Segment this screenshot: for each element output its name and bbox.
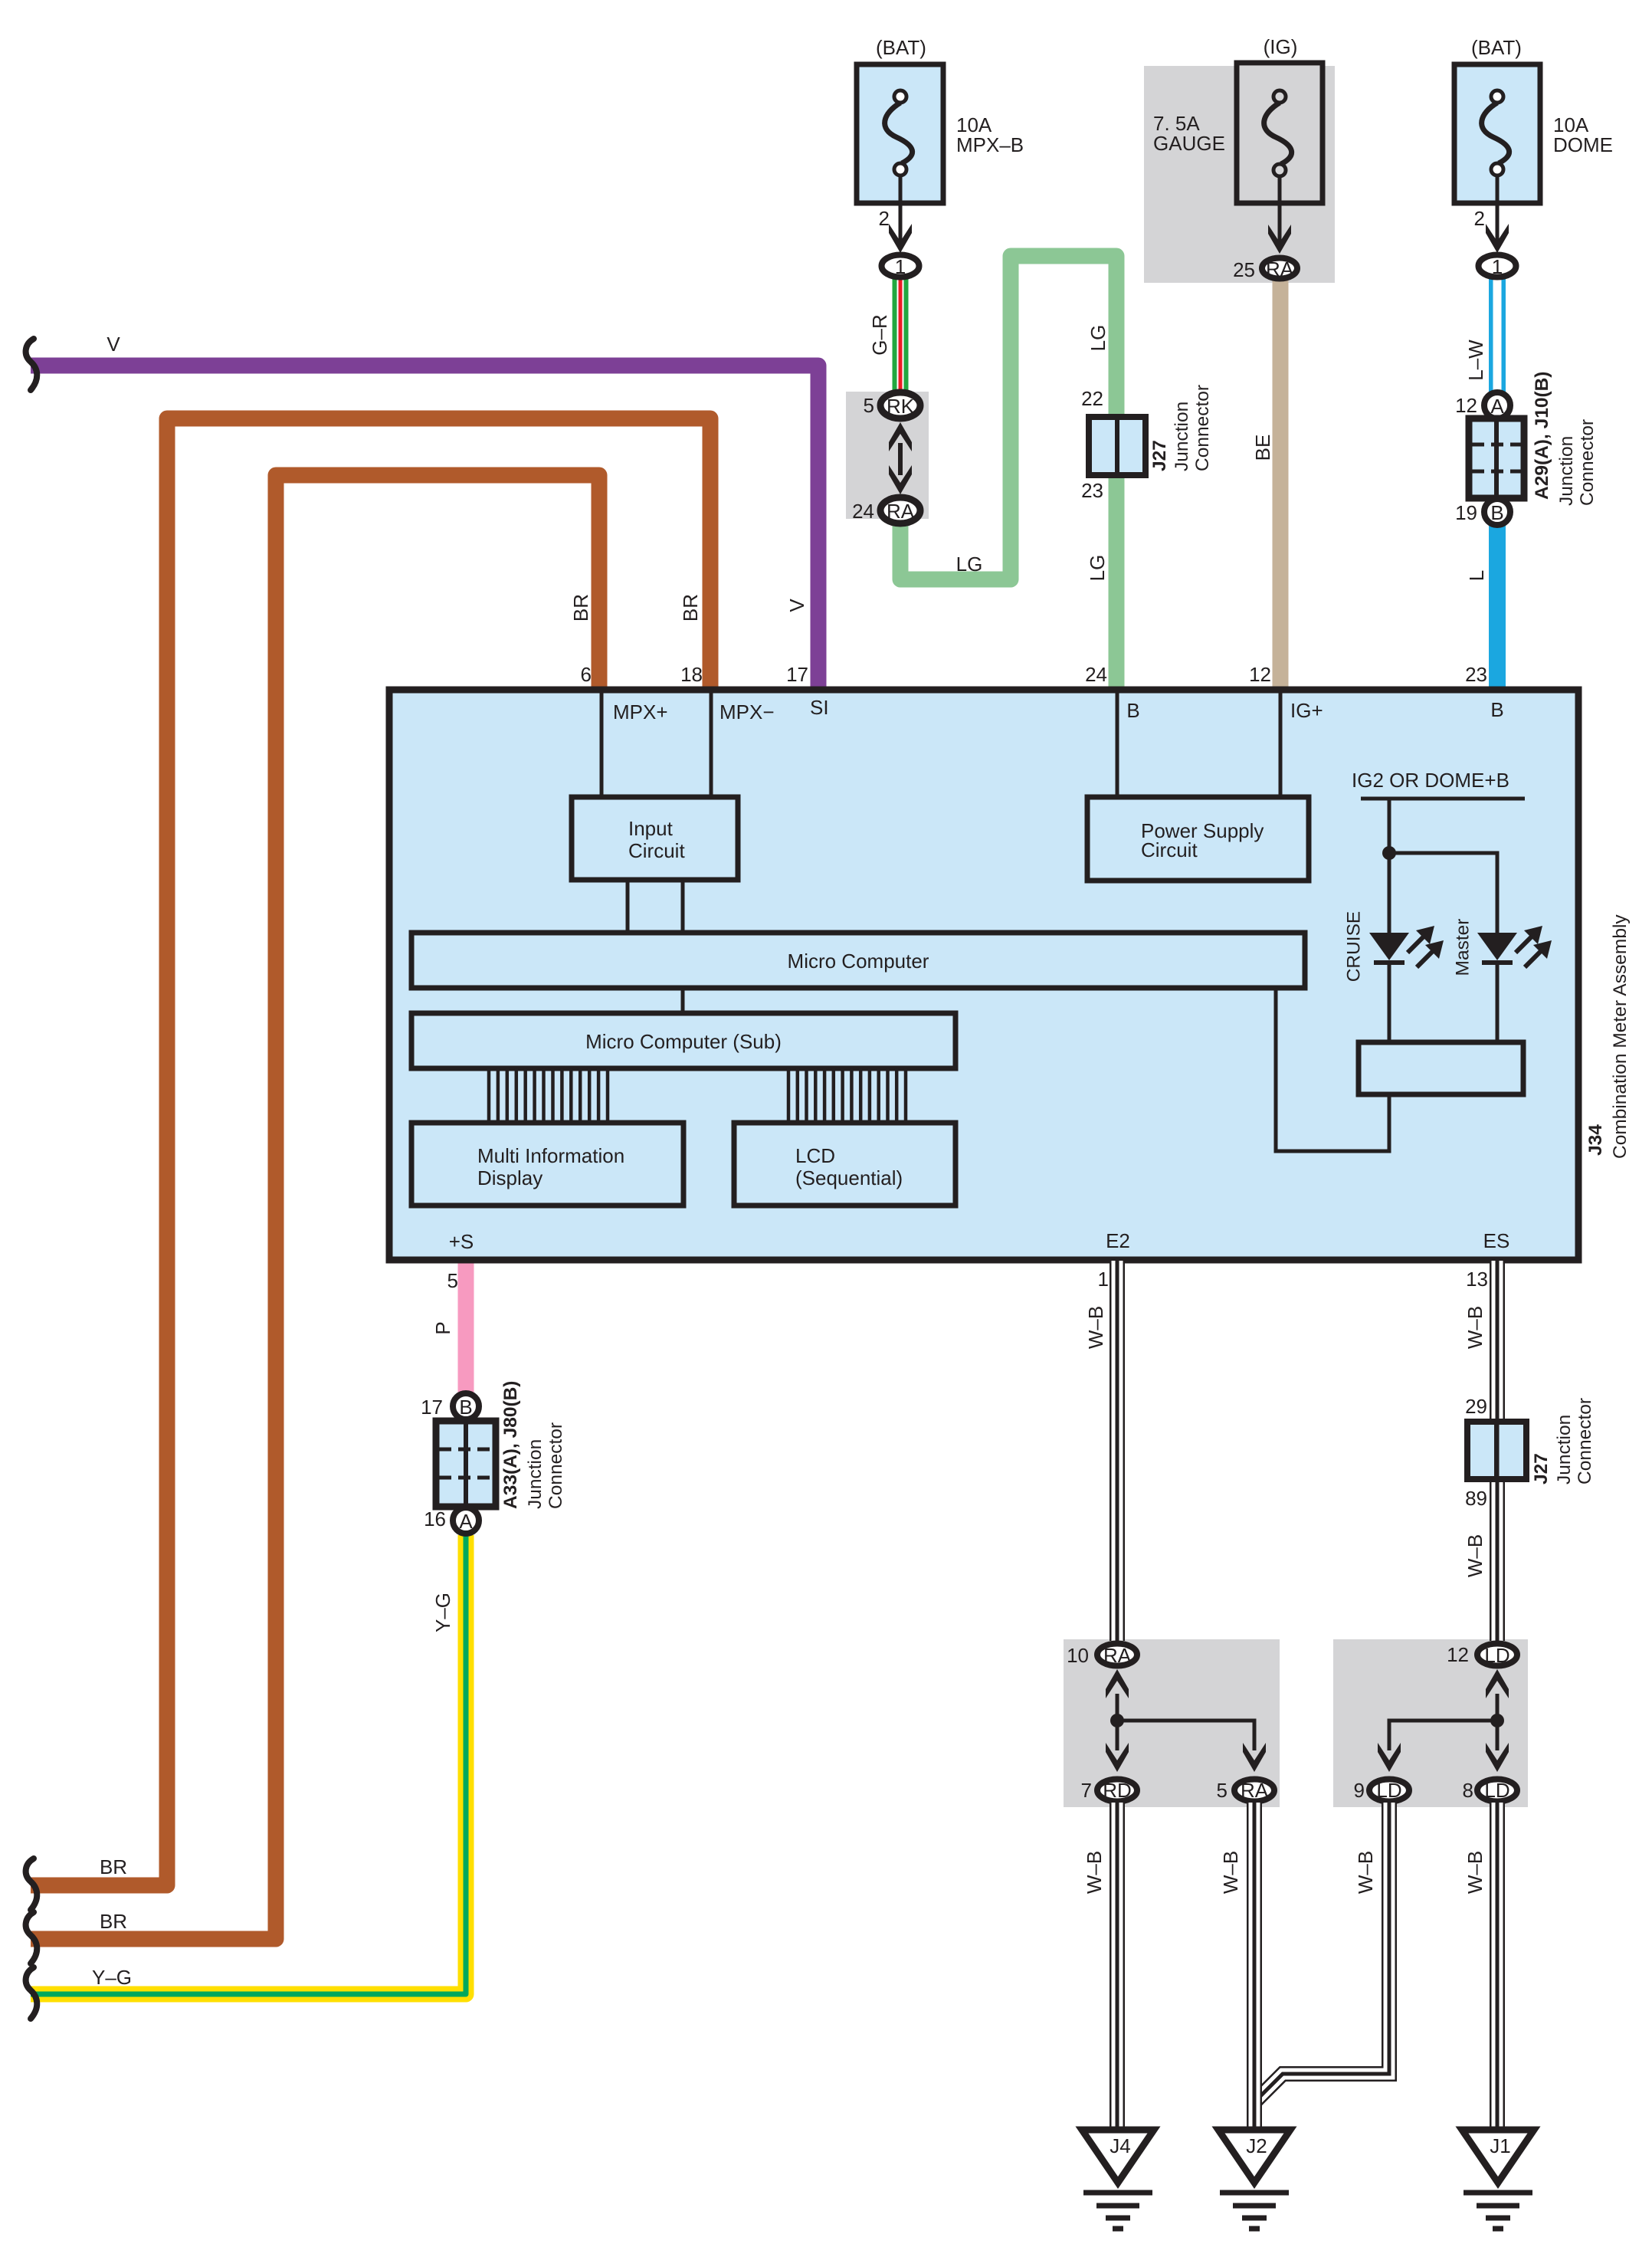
svg-text:Micro Computer (Sub): Micro Computer (Sub): [585, 1030, 782, 1053]
break symbol at V wire: [26, 339, 38, 390]
svg-text:W–B: W–B: [1464, 1851, 1486, 1894]
fuse 10A MPX-B: [857, 36, 1024, 278]
svg-text:V: V: [107, 333, 120, 356]
svg-text:A: A: [459, 1510, 473, 1533]
wire W-B from E2 pin 1 down to 10 RA: [1110, 1261, 1125, 1641]
wire G-R fuse MPX-B to 5 RK: [893, 277, 909, 395]
svg-text:24: 24: [1085, 663, 1107, 686]
meter box J34 Combination Meter Assembly: [389, 690, 1578, 1260]
svg-text:W–B: W–B: [1354, 1851, 1377, 1894]
svg-text:19: 19: [1455, 501, 1477, 524]
lamp driver block (unlabeled): [1359, 1042, 1523, 1094]
pin stub MPX+ internal lead: [600, 693, 604, 797]
svg-text:BR: BR: [569, 594, 592, 622]
svg-text:23: 23: [1465, 663, 1487, 686]
svg-text:Combination Meter Assembly: Combination Meter Assembly: [1610, 914, 1631, 1159]
connector group 10 RA / 7 RD / 5 RA: [1067, 1644, 1274, 1803]
svg-text:LD: LD: [1376, 1779, 1401, 1802]
connector group 12 LD / 9 LD / 8 LD: [1354, 1643, 1517, 1802]
svg-text:RD: RD: [1103, 1779, 1132, 1802]
svg-text:(BAT): (BAT): [1471, 36, 1522, 59]
gray panel behind RK/RA connector pair: [846, 392, 929, 519]
node junction dot: [1382, 846, 1396, 860]
svg-text:J34: J34: [1585, 1124, 1606, 1156]
svg-text:IG+: IG+: [1290, 699, 1323, 722]
svg-text:P: P: [431, 1321, 454, 1334]
svg-text:W–B: W–B: [1084, 1306, 1107, 1349]
wire L-W from DOME oval 1 to A29 pin A: [1489, 277, 1506, 393]
LED CRUISE: [1369, 926, 1444, 1042]
gray panel behind RA/RD/RA connector group: [1064, 1639, 1280, 1807]
wire P from meter +S to A33 pin B: [458, 1261, 474, 1395]
svg-text:Junction: Junction: [1556, 436, 1577, 506]
svg-text:17: 17: [786, 663, 808, 686]
svg-text:Connector: Connector: [1575, 1398, 1595, 1485]
svg-text:DOME: DOME: [1553, 133, 1613, 156]
svg-text:9: 9: [1354, 1779, 1365, 1802]
Input Circuit block: [572, 797, 738, 880]
svg-text:V: V: [785, 599, 808, 612]
svg-text:J2: J2: [1246, 2134, 1267, 2157]
svg-text:24: 24: [852, 500, 874, 523]
svg-text:Junction: Junction: [1554, 1415, 1575, 1485]
svg-text:B: B: [459, 1396, 472, 1419]
svg-text:Circuit: Circuit: [628, 839, 685, 862]
break symbol at BR outer wire: [26, 1859, 38, 1910]
svg-text:7: 7: [1081, 1779, 1092, 1802]
svg-text:89: 89: [1465, 1487, 1487, 1510]
svg-text:LG: LG: [1087, 325, 1110, 352]
svg-text:Micro Computer: Micro Computer: [788, 950, 929, 973]
svg-text:BR: BR: [100, 1855, 127, 1878]
svg-text:2: 2: [1474, 207, 1485, 230]
LCD (Sequential) block: [734, 1123, 955, 1206]
svg-text:MPX−: MPX−: [719, 700, 775, 723]
svg-text:LD: LD: [1484, 1779, 1509, 1802]
connector pair 5 RK / 24 RA: [852, 392, 920, 523]
svg-text:RA: RA: [1103, 1644, 1132, 1667]
svg-text:LCD: LCD: [795, 1144, 835, 1167]
svg-text:LG: LG: [1086, 555, 1109, 582]
svg-text:J27: J27: [1149, 440, 1170, 471]
Multi Information Display block: [411, 1123, 683, 1206]
svg-text:LD: LD: [1484, 1644, 1509, 1667]
junction connector A33(A), J80(B): [421, 1381, 566, 1534]
svg-text:17: 17: [421, 1396, 443, 1419]
svg-text:16: 16: [424, 1507, 446, 1530]
gray panel behind GAUGE fuse: [1144, 66, 1335, 283]
svg-text:1: 1: [895, 255, 906, 278]
svg-text:IG2 OR DOME+B: IG2 OR DOME+B: [1352, 769, 1509, 792]
gray panel behind LD/LD/LD connector group: [1333, 1639, 1528, 1807]
svg-text:Connector: Connector: [546, 1422, 566, 1509]
svg-text:RA: RA: [1241, 1779, 1269, 1802]
svg-text:G–R: G–R: [868, 314, 891, 355]
junction connector A29(A), J10(B): [1455, 372, 1598, 525]
wire Micro Computer to Micro Computer (Sub): [681, 988, 685, 1013]
wire BR inner: left break, up, across to pin 6: [31, 475, 599, 1939]
svg-text:MPX+: MPX+: [613, 700, 668, 723]
Micro Computer (Sub) block: [411, 1013, 955, 1068]
break symbol at BR inner wire: [26, 1912, 38, 1963]
wire stripe of ES W-B through J27: [1496, 1422, 1500, 1479]
svg-text:(BAT): (BAT): [876, 36, 926, 59]
svg-text:J27: J27: [1531, 1453, 1552, 1485]
wire IG2 rail down to CRUISE LED: [1388, 799, 1391, 934]
svg-text:W–B: W–B: [1083, 1851, 1106, 1894]
svg-text:6: 6: [581, 663, 592, 686]
svg-text:Connector: Connector: [1192, 385, 1213, 471]
svg-text:MPX–B: MPX–B: [956, 133, 1024, 156]
svg-text:13: 13: [1466, 1268, 1488, 1291]
svg-text:LG: LG: [956, 553, 983, 576]
svg-text:W–B: W–B: [1464, 1534, 1486, 1577]
svg-text:SI: SI: [810, 696, 829, 719]
svg-text:25: 25: [1233, 258, 1255, 281]
svg-text:J4: J4: [1110, 2134, 1130, 2157]
svg-text:Junction: Junction: [1172, 402, 1192, 471]
svg-text:J1: J1: [1490, 2134, 1510, 2157]
svg-text:A: A: [1490, 395, 1504, 418]
wire LG loop: from 24 RA oval to meter pin 24 B through J27: [900, 256, 1116, 688]
svg-text:L: L: [1465, 570, 1488, 581]
svg-text:BR: BR: [679, 594, 702, 622]
svg-text:W–B: W–B: [1464, 1306, 1486, 1349]
wire L from A29 pin B to meter pin 23: [1489, 524, 1506, 688]
svg-text:RA: RA: [1266, 258, 1294, 280]
svg-text:B: B: [1490, 501, 1503, 524]
svg-text:GAUGE: GAUGE: [1153, 132, 1225, 155]
ground J2: [1218, 2130, 1290, 2229]
svg-text:Junction: Junction: [525, 1439, 546, 1509]
svg-text:A29(A), J10(B): A29(A), J10(B): [1532, 372, 1552, 500]
wire Y-G from left break up to junction connector A33 pin A: [31, 1535, 466, 1994]
pin stub IG+ internal lead: [1279, 693, 1283, 797]
wire W-B from 8 LD to J1 ground: [1490, 1803, 1505, 2129]
Power Supply Circuit block: [1087, 797, 1309, 881]
pin stub B internal lead: [1116, 693, 1119, 797]
wire V (violet) from left break to pin 17 SI: [31, 366, 818, 688]
svg-text:23: 23: [1081, 479, 1103, 502]
wire W-B from 5 RA to J2 ground: [1247, 1803, 1262, 2129]
svg-text:5: 5: [447, 1269, 458, 1292]
svg-text:RA: RA: [887, 500, 915, 523]
svg-text:12: 12: [1447, 1643, 1469, 1666]
fuse 7.5A GAUGE: [1153, 35, 1323, 281]
svg-text:B: B: [1126, 699, 1139, 722]
wire driver block to Micro Computer: [1276, 988, 1389, 1151]
junction connector J27 (upper): [1081, 385, 1213, 502]
svg-text:8: 8: [1463, 1779, 1473, 1802]
svg-text:1: 1: [1492, 255, 1503, 278]
svg-text:BE: BE: [1251, 435, 1274, 461]
LED Master: [1477, 926, 1552, 1042]
break symbol at Y-G wire: [26, 1967, 38, 2019]
svg-text:Y–G: Y–G: [431, 1593, 454, 1632]
fuse 10A DOME: [1454, 36, 1613, 278]
wire W-B from 7 RD to J4 ground: [1110, 1803, 1125, 2129]
svg-text:5: 5: [1217, 1779, 1228, 1802]
svg-text:Connector: Connector: [1577, 419, 1598, 506]
Micro Computer block: [411, 933, 1305, 988]
svg-text:E2: E2: [1106, 1229, 1130, 1252]
svg-text:RK: RK: [887, 395, 915, 418]
svg-text:Circuit: Circuit: [1141, 838, 1198, 861]
svg-text:CRUISE: CRUISE: [1343, 911, 1364, 983]
svg-text:W–B: W–B: [1219, 1851, 1242, 1894]
wire branch to Master LED: [1389, 853, 1497, 934]
svg-text:Master: Master: [1452, 919, 1473, 976]
svg-text:12: 12: [1455, 394, 1477, 417]
svg-text:5: 5: [864, 394, 874, 417]
svg-text:ES: ES: [1483, 1229, 1510, 1252]
svg-text:2: 2: [879, 207, 890, 230]
svg-text:10: 10: [1067, 1644, 1089, 1667]
ribbon bus Sub to Multi Information Display: [489, 1068, 608, 1123]
pin stub MPX- internal lead: [710, 693, 713, 797]
ground J1: [1462, 2130, 1534, 2229]
svg-text:(IG): (IG): [1264, 35, 1298, 58]
svg-text:B: B: [1490, 698, 1503, 721]
svg-text:18: 18: [680, 663, 703, 686]
svg-text:Y–G: Y–G: [92, 1966, 132, 1989]
svg-text:(Sequential): (Sequential): [795, 1166, 903, 1189]
svg-text:Input: Input: [628, 817, 674, 840]
wire W-B from 9 LD jog to J2 ground: [1254, 1803, 1389, 2102]
svg-text:+S: +S: [449, 1230, 474, 1253]
svg-text:22: 22: [1081, 387, 1103, 410]
wire BE from 25 RA to pin 12 IG+: [1273, 277, 1289, 688]
svg-text:Multi Information: Multi Information: [477, 1144, 624, 1167]
svg-text:Display: Display: [477, 1166, 542, 1189]
svg-text:BR: BR: [100, 1910, 127, 1933]
svg-text:29: 29: [1465, 1395, 1487, 1418]
svg-text:12: 12: [1249, 663, 1271, 686]
ground J4: [1082, 2130, 1154, 2229]
wire W-B from ES pin 13 down through J27 to 12 LD: [1490, 1261, 1505, 1641]
svg-text:1: 1: [1098, 1268, 1109, 1291]
junction connector J27 (lower): [1465, 1395, 1595, 1510]
svg-text:L–W: L–W: [1464, 340, 1487, 381]
wires Input Circuit to Micro Computer: [626, 880, 630, 933]
ribbon bus Sub to LCD: [788, 1068, 906, 1123]
svg-text:A33(A), J80(B): A33(A), J80(B): [500, 1381, 521, 1509]
wire BR outer: left break, up, across to pin 18: [31, 418, 710, 1885]
